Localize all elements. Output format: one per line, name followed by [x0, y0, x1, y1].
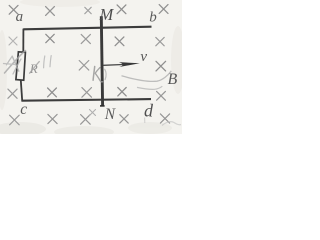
- conducting rod MN: [101, 16, 102, 105]
- pencil scribble over resistor: [4, 51, 26, 75]
- top rail a-b (wire): [23, 27, 151, 30]
- pencil annotation K on rod: [93, 67, 106, 82]
- svg-text:a: a: [16, 9, 24, 25]
- velocity arrow v: [104, 62, 140, 67]
- wire from resistor down to node c: [21, 80, 22, 101]
- paper mottle: [0, 0, 185, 138]
- resistor R (box, slightly skewed as in scan): [16, 52, 26, 80]
- bottom rail c-d (wire): [21, 99, 151, 101]
- faint speck below d: [144, 118, 146, 124]
- left wire from node a down to resistor: [22, 29, 24, 52]
- svg-text:d: d: [144, 100, 154, 120]
- svg-text:c: c: [20, 101, 27, 118]
- pencil stroke near B (short lower arc): [137, 86, 162, 89]
- pencil stroke near B (long swoosh up to B): [122, 71, 172, 82]
- magnetic field B (into page) x symbols: [8, 5, 170, 125]
- svg-text:N: N: [104, 106, 117, 123]
- svg-text:v: v: [140, 49, 147, 65]
- svg-text:b: b: [149, 10, 157, 26]
- pencil smudge bottom right: [162, 122, 181, 126]
- rod bottom end tick: [100, 105, 105, 107]
- pencil strike over R: [29, 61, 39, 73]
- paper background: [0, 0, 182, 134]
- pencil marks right of R: [44, 56, 52, 68]
- svg-text:M: M: [99, 5, 115, 24]
